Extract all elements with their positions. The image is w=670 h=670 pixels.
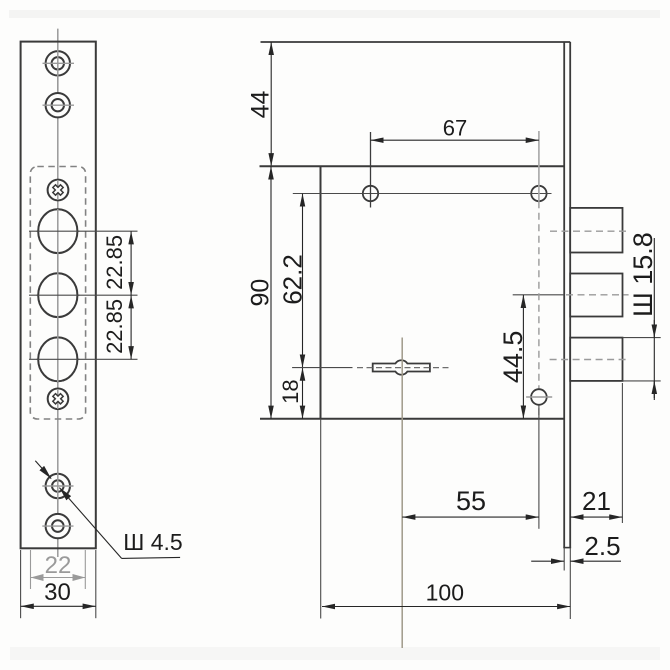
svg-text:100: 100 (426, 580, 464, 606)
svg-text:55: 55 (456, 486, 486, 516)
svg-text:67: 67 (443, 116, 467, 141)
svg-text:90: 90 (247, 279, 275, 307)
svg-text:62.2: 62.2 (278, 254, 308, 305)
svg-text:44.5: 44.5 (498, 331, 528, 384)
svg-text:30: 30 (44, 579, 71, 606)
svg-text:2.5: 2.5 (584, 531, 620, 561)
svg-text:22.85: 22.85 (102, 235, 127, 290)
svg-text:21: 21 (582, 486, 611, 516)
svg-text:Ш 4.5: Ш 4.5 (123, 529, 182, 555)
svg-text:22.85: 22.85 (102, 299, 127, 354)
svg-text:44: 44 (247, 91, 275, 119)
svg-text:18: 18 (278, 379, 303, 403)
svg-text:Ш 15.8: Ш 15.8 (628, 232, 658, 317)
svg-text:22: 22 (45, 552, 72, 579)
